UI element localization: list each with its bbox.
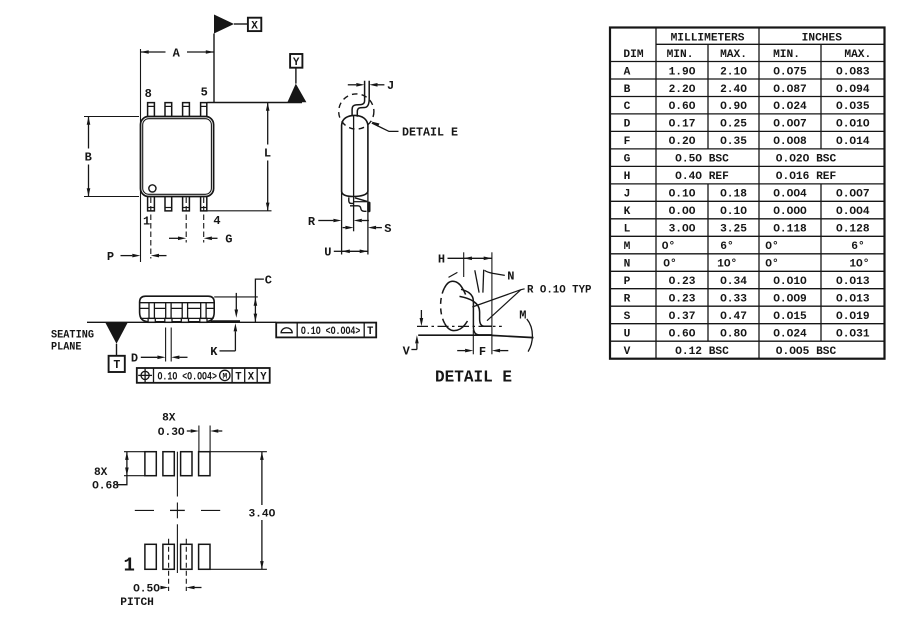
side view: top lead (thickness J) <box>352 81 365 117</box>
pad centerlines (pitch) <box>168 539 170 591</box>
svg-text:A: A <box>624 66 631 78</box>
top view: pin-1 index dot <box>149 185 156 192</box>
svg-text:O.OO5 BSC: O.OO5 BSC <box>776 346 837 358</box>
svg-text:O.OO9: O.OO9 <box>773 294 807 306</box>
svg-text:B: B <box>624 84 631 96</box>
top view: top row pins 8..5 <box>148 103 155 117</box>
svg-text:O.6O: O.6O <box>669 101 696 113</box>
svg-text:O.12 BSC: O.12 BSC <box>675 346 729 358</box>
datum T box <box>109 356 125 372</box>
land pattern: horizontal centerline dashes <box>135 509 154 511</box>
svg-text:O.1O <O.OO4>: O.1O <O.OO4> <box>301 326 361 338</box>
svg-text:O.2O: O.2O <box>669 136 696 148</box>
svg-text:SEATING: SEATING <box>51 329 94 341</box>
svg-text:T: T <box>113 359 120 372</box>
svg-text:O°: O° <box>765 259 778 271</box>
pin 4 centerline <box>203 198 205 243</box>
side view: body side extension lines <box>341 192 343 255</box>
svg-text:O.47: O.47 <box>720 311 747 323</box>
svg-text:6°: 6° <box>851 241 864 253</box>
side view: bottom lead <box>349 197 354 203</box>
svg-text:1.9O: 1.9O <box>669 66 696 78</box>
svg-text:O.O94: O.O94 <box>836 84 870 96</box>
detail E: lead outer edge <box>461 289 492 335</box>
flatness feature control frame <box>276 323 376 338</box>
svg-text:N: N <box>624 259 631 271</box>
svg-text:4: 4 <box>213 214 220 228</box>
svg-text:O.O1O: O.O1O <box>836 119 870 131</box>
svg-text:V: V <box>403 345 411 359</box>
svg-text:O.1O: O.1O <box>669 189 696 201</box>
svg-text:O.5O BSC: O.5O BSC <box>675 154 729 166</box>
svg-text:Y: Y <box>260 371 267 383</box>
dimension 3.40 <box>210 451 267 453</box>
svg-text:O.5O: O.5O <box>133 584 160 596</box>
svg-text:INCHES: INCHES <box>802 32 843 44</box>
dimension V <box>420 310 422 318</box>
detail E callout circle <box>339 94 374 129</box>
dimension C <box>214 296 258 298</box>
svg-text:U: U <box>624 329 631 341</box>
svg-text:O.34: O.34 <box>720 276 747 288</box>
svg-text:O.O16 REF: O.O16 REF <box>776 171 837 183</box>
svg-text:5: 5 <box>201 86 208 100</box>
svg-text:O.O87: O.O87 <box>773 84 807 96</box>
svg-text:D: D <box>131 352 138 366</box>
dimension N angle lines <box>475 270 479 292</box>
svg-text:O.128: O.128 <box>836 224 870 236</box>
svg-text:H: H <box>624 171 631 183</box>
R 0.10 TYP leaders <box>472 289 524 307</box>
svg-text:MILLIMETERS: MILLIMETERS <box>671 32 745 44</box>
dimension D <box>165 328 167 362</box>
land pattern: vertical centerline <box>176 452 178 497</box>
svg-text:O.O13: O.O13 <box>836 294 870 306</box>
svg-text:MAX.: MAX. <box>720 49 747 61</box>
svg-text:S: S <box>384 222 391 236</box>
svg-text:P: P <box>107 250 114 264</box>
svg-text:O.8O: O.8O <box>720 329 747 341</box>
svg-text:O.1O: O.1O <box>720 206 747 218</box>
dimension J <box>348 84 357 86</box>
svg-text:O.3O: O.3O <box>158 427 185 439</box>
svg-text:PITCH: PITCH <box>120 597 154 609</box>
dimension K <box>235 293 237 310</box>
land pattern: center cross <box>170 509 185 511</box>
svg-text:Y: Y <box>293 57 300 69</box>
svg-text:O.O35: O.O35 <box>836 101 870 113</box>
side view: lead center plane line <box>353 116 355 231</box>
svg-text:3.OO: 3.OO <box>669 224 696 236</box>
datum Y flag <box>290 54 302 68</box>
svg-text:O.OOO: O.OOO <box>773 206 807 218</box>
svg-text:O.4O REF: O.4O REF <box>675 171 729 183</box>
svg-text:O.118: O.118 <box>773 224 807 236</box>
detail E: foot flank line at angle M <box>492 335 534 337</box>
svg-text:M: M <box>624 241 631 253</box>
svg-text:O.OO: O.OO <box>669 206 696 218</box>
svg-text:MIN.: MIN. <box>667 49 694 61</box>
svg-text:O.6O: O.6O <box>669 329 696 341</box>
svg-text:B: B <box>85 151 92 165</box>
svg-text:O.OO8: O.OO8 <box>773 136 807 148</box>
svg-text:O°: O° <box>662 241 675 253</box>
top view: bottom row pins 1..4 <box>148 197 155 211</box>
svg-text:C: C <box>265 274 272 288</box>
svg-text:8: 8 <box>145 87 152 101</box>
lead bottom max line (dash-dot) <box>417 325 502 327</box>
svg-text:O.O24: O.O24 <box>773 101 807 113</box>
position feature control frame <box>137 368 270 383</box>
land pattern: bottom row pads <box>145 544 156 569</box>
svg-text:V: V <box>624 346 631 358</box>
svg-text:X: X <box>248 371 255 383</box>
svg-text:O.9O: O.9O <box>720 101 747 113</box>
svg-text:O.OO7: O.OO7 <box>836 189 870 201</box>
datum X flag <box>214 15 234 34</box>
svg-text:1: 1 <box>123 554 134 576</box>
svg-text:U: U <box>324 246 331 260</box>
svg-text:O.O2O BSC: O.O2O BSC <box>776 154 837 166</box>
svg-text:O.O19: O.O19 <box>836 311 870 323</box>
svg-text:J: J <box>387 79 394 93</box>
svg-text:3.4O: 3.4O <box>248 509 275 521</box>
svg-text:O.OO4: O.OO4 <box>773 189 807 201</box>
svg-text:R: R <box>624 294 631 306</box>
svg-text:X: X <box>251 21 258 33</box>
svg-text:O.O75: O.O75 <box>773 66 807 78</box>
seating plane line <box>87 321 276 323</box>
front view: leads <box>149 303 154 319</box>
svg-text:1O°: 1O° <box>717 259 737 271</box>
svg-text:T: T <box>367 326 374 338</box>
detail E leader <box>371 122 379 127</box>
svg-text:8X: 8X <box>162 413 176 425</box>
svg-text:O.17: O.17 <box>669 119 696 131</box>
svg-text:3.25: 3.25 <box>720 224 747 236</box>
svg-text:O°: O° <box>765 241 778 253</box>
svg-text:O.OO4: O.OO4 <box>836 206 870 218</box>
svg-text:M: M <box>222 373 227 381</box>
dimension L <box>206 210 272 212</box>
detail E: seating plane line <box>418 334 491 336</box>
svg-text:1: 1 <box>143 215 150 229</box>
svg-text:MAX.: MAX. <box>844 49 871 61</box>
detail E: H extension lines <box>463 252 465 277</box>
seating plane thick contact bar <box>211 320 241 323</box>
dimension B <box>84 116 139 118</box>
svg-text:J: J <box>624 189 631 201</box>
svg-text:S: S <box>624 311 631 323</box>
svg-text:R O.1O TYP: R O.1O TYP <box>527 284 592 296</box>
svg-text:8X: 8X <box>94 467 108 479</box>
svg-text:H: H <box>438 253 445 267</box>
svg-text:O.25: O.25 <box>720 119 747 131</box>
svg-text:F: F <box>479 345 486 359</box>
svg-text:6°: 6° <box>720 241 733 253</box>
svg-text:D: D <box>624 119 631 131</box>
svg-text:O.O15: O.O15 <box>773 311 807 323</box>
svg-text:F: F <box>624 136 631 148</box>
pin 3 centerline <box>185 198 187 243</box>
svg-text:L: L <box>624 224 631 236</box>
svg-text:O.O1O: O.O1O <box>773 276 807 288</box>
svg-text:2.1O: 2.1O <box>720 66 747 78</box>
detail E: lead inner edge <box>460 296 492 326</box>
dimension F <box>457 350 465 352</box>
svg-text:O.O13: O.O13 <box>836 276 870 288</box>
svg-text:1O°: 1O° <box>849 259 869 271</box>
svg-text:DETAIL E: DETAIL E <box>435 368 512 387</box>
svg-text:DIM: DIM <box>623 49 643 61</box>
front view: mold parting lines <box>140 302 215 304</box>
svg-text:O.OO7: O.OO7 <box>773 119 807 131</box>
svg-text:O.23: O.23 <box>669 276 696 288</box>
svg-text:K: K <box>624 206 631 218</box>
svg-text:MIN.: MIN. <box>773 49 800 61</box>
svg-text:T: T <box>235 371 242 383</box>
svg-text:O.O31: O.O31 <box>836 329 870 341</box>
datum X extension line <box>213 34 215 103</box>
svg-text:2.2O: 2.2O <box>669 84 696 96</box>
side view: package body <box>342 115 368 196</box>
svg-text:L: L <box>264 147 271 161</box>
svg-text:O.O24: O.O24 <box>773 329 807 341</box>
pin 1 centerline <box>150 198 152 259</box>
svg-text:G: G <box>225 233 232 247</box>
angle M arc and label <box>527 319 533 352</box>
svg-text:PLANE: PLANE <box>51 341 82 353</box>
svg-text:C: C <box>624 101 631 113</box>
dimension G <box>169 237 178 239</box>
svg-text:O.1O <O.OO4>: O.1O <O.OO4> <box>157 371 217 383</box>
svg-text:N: N <box>507 270 514 284</box>
seating plane datum triangle <box>105 322 128 343</box>
svg-text:P: P <box>624 276 631 288</box>
svg-text:G: G <box>624 154 631 166</box>
datum Y line (pin tip line) <box>207 102 302 104</box>
svg-text:O.O83: O.O83 <box>836 66 870 78</box>
svg-text:O.35: O.35 <box>720 136 747 148</box>
svg-text:O°: O° <box>663 259 676 271</box>
svg-text:O.18: O.18 <box>720 189 747 201</box>
svg-text:O.33: O.33 <box>720 294 747 306</box>
svg-text:O.68: O.68 <box>92 481 119 493</box>
front view: package body <box>140 296 215 322</box>
svg-text:M: M <box>519 309 526 323</box>
dimension A <box>140 49 142 262</box>
svg-text:2.4O: 2.4O <box>720 84 747 96</box>
land pattern: top row pads <box>145 452 156 476</box>
svg-text:O.O14: O.O14 <box>836 136 870 148</box>
svg-text:K: K <box>210 345 218 359</box>
svg-text:O.37: O.37 <box>669 311 696 323</box>
svg-text:A: A <box>173 47 181 61</box>
N leader and label <box>485 270 505 275</box>
detail E: body section (dashed cut) <box>441 288 445 323</box>
dimension S (side) <box>343 227 346 229</box>
svg-text:O.23: O.23 <box>669 294 696 306</box>
top view: package body <box>141 117 214 197</box>
svg-text:R: R <box>308 215 316 229</box>
dimension table <box>610 28 885 359</box>
svg-text:DETAIL E: DETAIL E <box>402 127 458 140</box>
